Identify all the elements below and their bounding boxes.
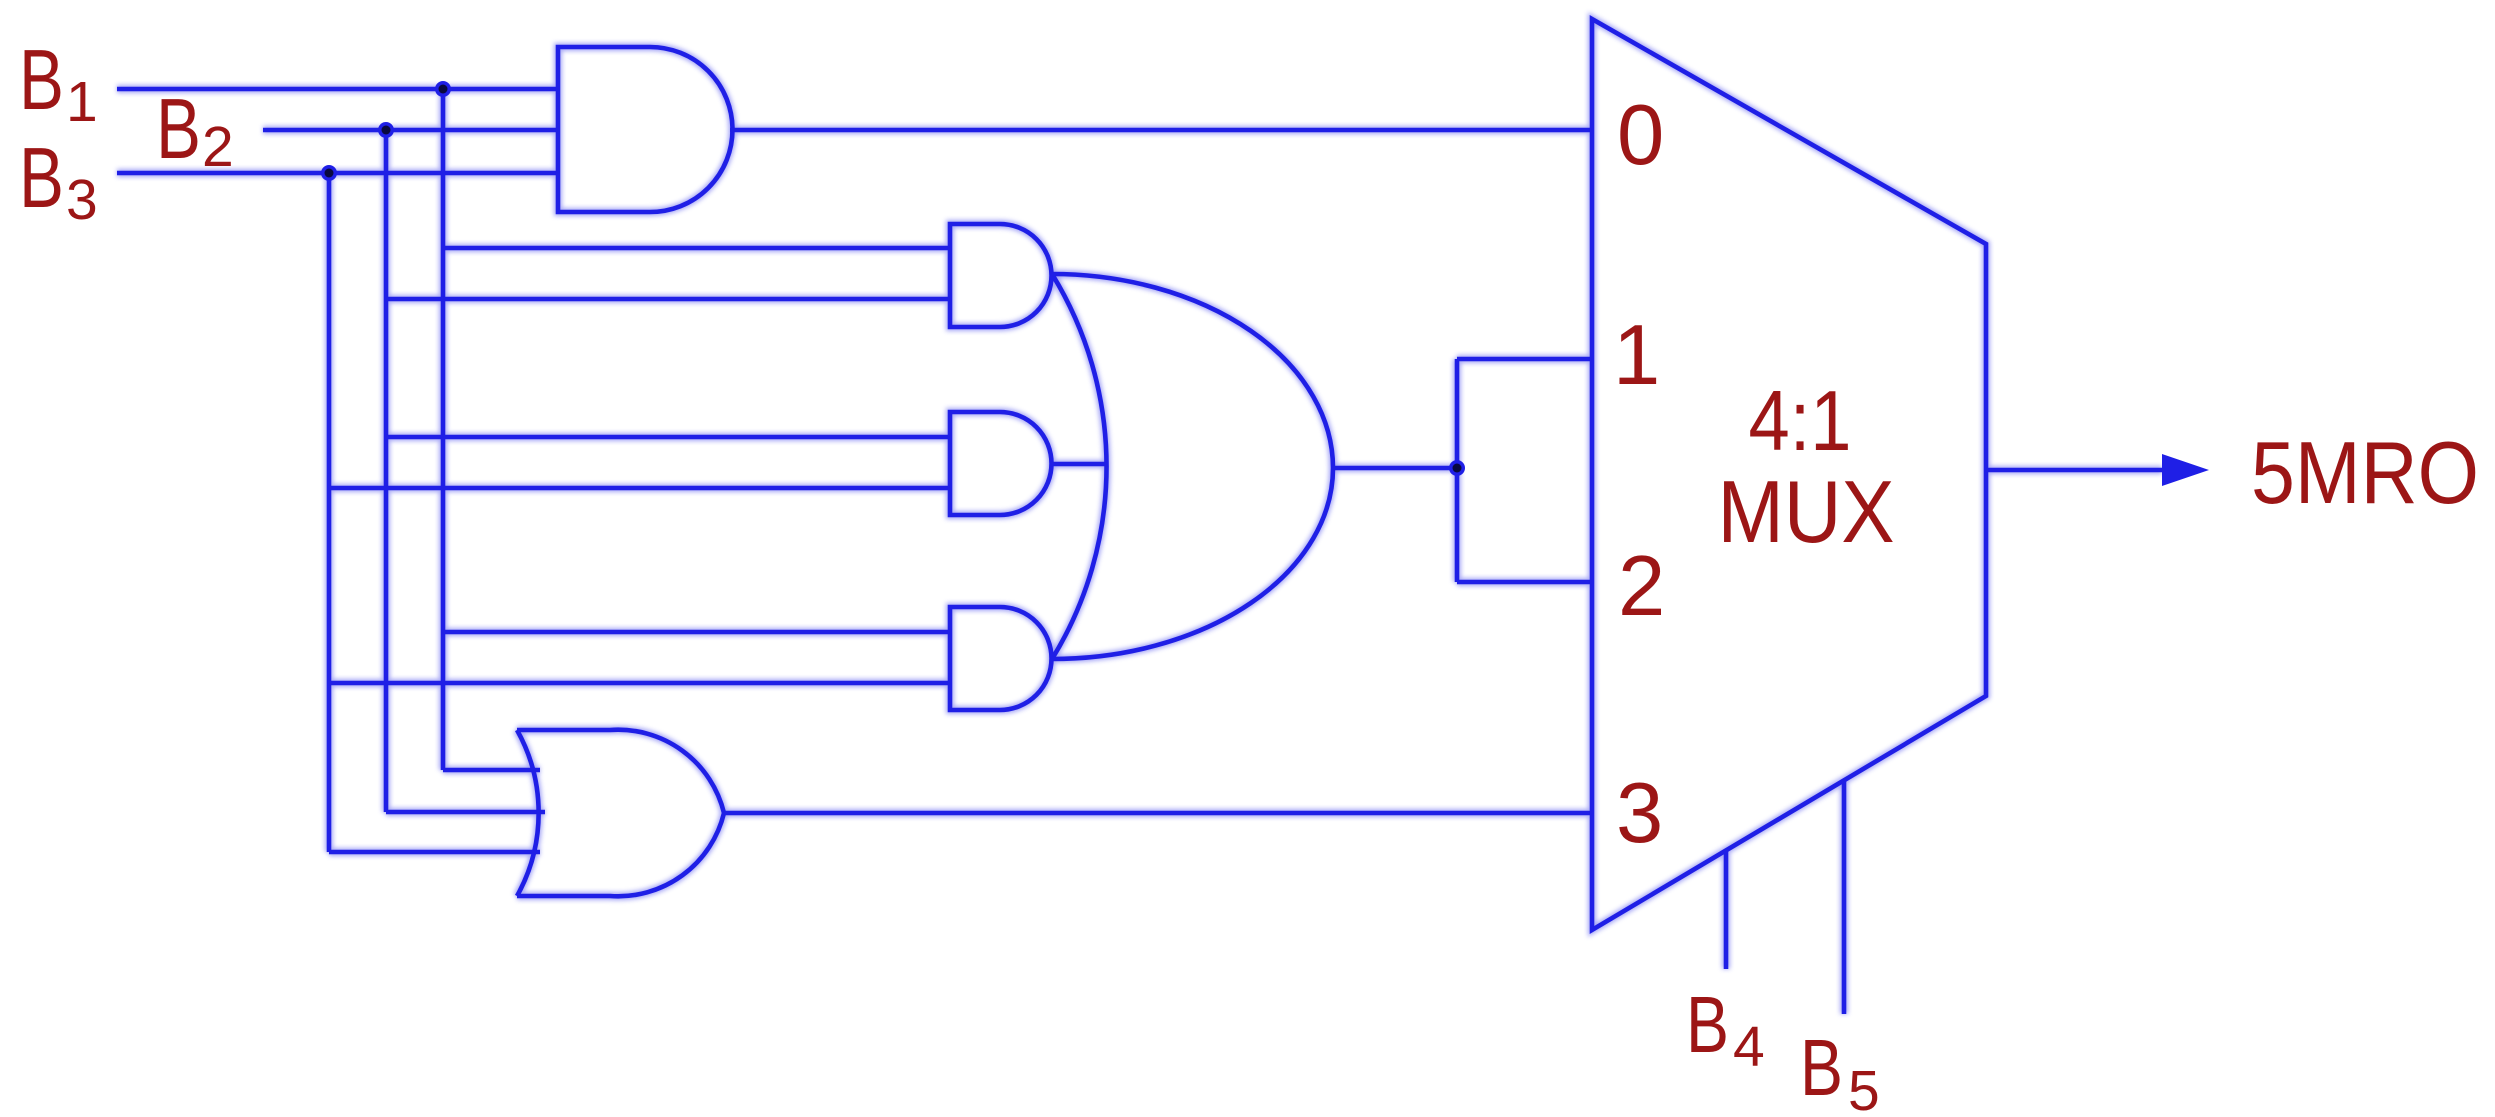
svg-text:2: 2: [1618, 539, 1665, 634]
svg-text:B: B: [1686, 980, 1729, 1069]
svg-text:1: 1: [1613, 308, 1660, 403]
svg-text:1: 1: [66, 70, 98, 134]
svg-text:B: B: [19, 33, 64, 128]
svg-text:3: 3: [1616, 766, 1663, 861]
svg-text:4: 4: [1733, 1015, 1765, 1079]
svg-text:B: B: [1800, 1023, 1843, 1112]
svg-text:MUX: MUX: [1718, 462, 1895, 561]
svg-text:5: 5: [1848, 1059, 1880, 1117]
svg-text:B: B: [19, 131, 64, 226]
svg-text:0: 0: [1617, 88, 1664, 183]
svg-text:4:1: 4:1: [1749, 374, 1852, 469]
svg-text:3: 3: [66, 168, 98, 232]
svg-text:2: 2: [202, 115, 234, 179]
svg-text:5MRO: 5MRO: [2251, 423, 2479, 522]
svg-text:B: B: [156, 82, 201, 177]
